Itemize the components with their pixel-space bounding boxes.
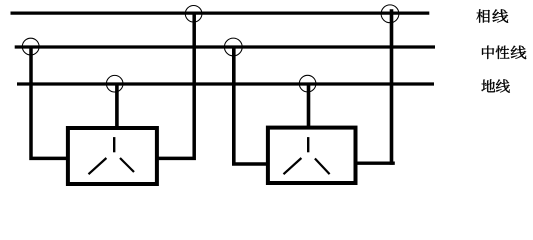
net label 地线 (ground line) xyxy=(481,79,509,92)
node: tap junction on L2 for socket 1 xyxy=(22,38,39,55)
wire: phase bus line L1 (相线) xyxy=(11,12,430,15)
wire: neutral bus line L2 (中性线) xyxy=(15,45,435,48)
wire: socket 2 ground drop from L3 xyxy=(307,84,311,130)
wire: socket 2 phase drop from L1 xyxy=(390,9,394,165)
socket outlet X1 (three-prong socket box) xyxy=(68,128,157,184)
node: tap junction on L3 for socket 1 xyxy=(106,75,123,92)
wire: socket 1 neutral drop from L2 xyxy=(31,47,70,158)
net label 中性线 (neutral line) xyxy=(482,46,526,59)
wire: socket 1 ground drop from L3 xyxy=(115,84,119,130)
node: tap junction on L3 for socket 2 xyxy=(299,75,316,92)
wire: socket 1 phase drop from L1 xyxy=(155,13,194,158)
net label 相线 (phase line) xyxy=(476,9,508,22)
node: tap junction on L1 for socket 2 xyxy=(381,5,399,23)
node: tap junction on L1 for socket 1 xyxy=(185,6,202,23)
wire: socket 2 neutral drop from L2 xyxy=(234,47,270,164)
socket outlet X2 (three-prong socket box) xyxy=(268,128,356,183)
node: tap junction on L2 for socket 2 xyxy=(224,38,242,56)
wire: ground bus line L3 (地线) xyxy=(17,82,434,85)
